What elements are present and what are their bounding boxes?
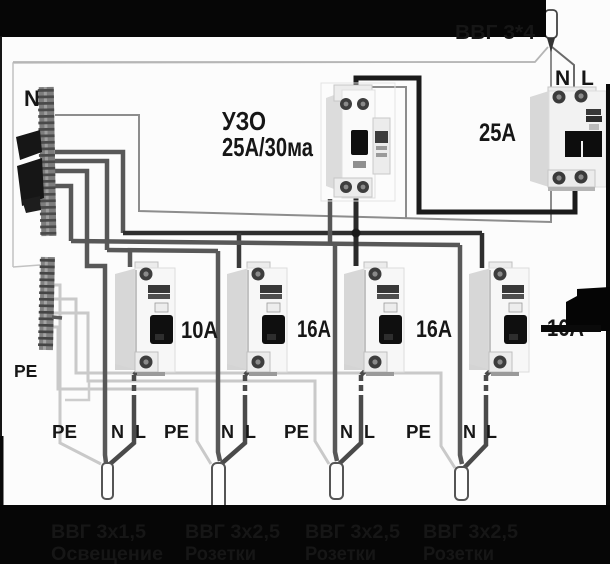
svg-text:N: N — [340, 422, 353, 442]
feed cable capsule — [545, 10, 557, 38]
arrow marker — [566, 287, 610, 331]
wire feed capsule to L terminal — [552, 47, 574, 89]
wire L cable4 — [486, 362, 500, 375]
svg-text:РЕ: РЕ — [284, 422, 309, 442]
PE wire cable1 — [52, 285, 101, 464]
line1 stub to breaker2 — [237, 233, 242, 268]
breaker QF2 16A — [227, 262, 287, 376]
wire L cable1 — [134, 362, 146, 375]
line2 drop to cable4 N — [460, 245, 462, 464]
bottom black bar — [0, 505, 610, 564]
frame stub to PE bus — [13, 265, 40, 267]
RCD U1 — [321, 83, 395, 201]
cable end capsule 1 — [102, 463, 113, 499]
svg-text:РЕ: РЕ — [164, 422, 189, 442]
wire L cable2 — [245, 362, 258, 375]
line3 drop to cable2 N — [218, 251, 220, 461]
breaker QF1 10A — [115, 262, 175, 376]
N bus DIN clip — [16, 130, 42, 160]
wire W2 N-bus to line3 — [55, 161, 107, 250]
svg-text:ВВГ 3х2,5: ВВГ 3х2,5 — [423, 522, 518, 543]
panel frame — [13, 62, 535, 267]
line3 horizontal — [107, 250, 218, 251]
wire RCD N-out to line2 — [328, 199, 333, 243]
breaker QF3 16A — [344, 262, 404, 376]
svg-text:16А: 16А — [297, 316, 331, 343]
PE bus bar — [38, 257, 55, 350]
breaker QF4 — [469, 262, 529, 376]
wire W1 N-bus to line1 — [55, 152, 123, 233]
PE link segment — [65, 382, 89, 400]
svg-text:Розетки: Розетки — [305, 544, 376, 564]
svg-text:ВВГ 3*4: ВВГ 3*4 — [455, 22, 536, 44]
svg-text:L: L — [135, 422, 146, 442]
svg-text:N: N — [111, 422, 124, 442]
left border — [0, 36, 2, 436]
svg-text:N: N — [221, 422, 234, 442]
wire phase 25A to RCD — [356, 78, 575, 212]
main breaker QF0 25A — [530, 87, 606, 191]
cable end capsule 4 — [455, 467, 468, 500]
svg-text:L: L — [245, 422, 256, 442]
right border — [606, 84, 610, 564]
wire RCD out to breaker3 — [354, 195, 359, 266]
svg-text:ВВГ 3х2,5: ВВГ 3х2,5 — [185, 522, 280, 543]
svg-text:16А: 16А — [416, 316, 452, 343]
cable end capsule 3 — [330, 463, 343, 499]
svg-text:L: L — [486, 422, 497, 442]
wire N thin from N bus to 25A N-out — [55, 115, 551, 222]
junction node — [352, 229, 361, 238]
svg-text:ВВГ 3х2,5: ВВГ 3х2,5 — [305, 522, 400, 543]
svg-text:25А/30ма: 25А/30ма — [222, 132, 313, 162]
svg-text:L: L — [581, 67, 594, 90]
N bus bar — [38, 87, 57, 236]
PE bus wire stub — [52, 317, 62, 318]
svg-text:РЕ: РЕ — [14, 361, 37, 381]
svg-text:РЕ: РЕ — [406, 422, 431, 442]
svg-text:L: L — [364, 422, 375, 442]
line3 stub to breaker1 — [128, 251, 133, 267]
wire W4 N-bus to line2 — [55, 186, 71, 241]
PE wire cable3 — [52, 313, 329, 464]
cable end capsule 2 — [212, 463, 225, 513]
line2 drop to cable3 N — [335, 243, 337, 461]
wire W3 N-bus to cable1 N — [55, 171, 106, 463]
line2 horizontal — [71, 241, 460, 245]
svg-text:25А: 25А — [479, 119, 516, 147]
PE wire cable2 — [52, 327, 211, 464]
PE wire cable4 — [52, 299, 455, 468]
svg-text:10А: 10А — [181, 317, 218, 344]
wire thin from frame to feed capsule — [13, 47, 548, 62]
svg-text:Розетки: Розетки — [423, 544, 494, 564]
svg-text:N: N — [24, 86, 40, 111]
svg-text:РЕ: РЕ — [52, 422, 77, 442]
svg-text:N: N — [463, 422, 476, 442]
svg-text:N: N — [555, 67, 570, 90]
line1 horizontal — [123, 231, 482, 236]
svg-text:Розетки: Розетки — [185, 544, 256, 564]
wire N thin loop to RCD top — [340, 87, 406, 218]
svg-text:ВВГ 3х1,5: ВВГ 3х1,5 — [51, 522, 146, 543]
top black bar — [0, 0, 546, 37]
svg-text:Освещение: Освещение — [51, 544, 163, 564]
wire feed capsule to N terminal — [550, 48, 552, 88]
line1 drop to breaker4 — [480, 233, 485, 268]
wire L cable3 — [361, 362, 374, 375]
